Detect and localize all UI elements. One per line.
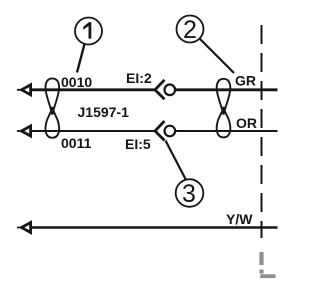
twisted pair symbol right (217, 79, 231, 138)
svg-text:GR: GR (235, 73, 256, 89)
svg-text:0011: 0011 (61, 135, 92, 151)
callout circle 3 (176, 179, 204, 208)
svg-text:EI:5: EI:5 (125, 136, 151, 152)
svg-text:OR: OR (236, 115, 257, 131)
grey corner mark (bottom-right) (260, 252, 275, 276)
callout circle 1 (75, 18, 102, 45)
leader line from circle 2 to GR label (200, 39, 234, 73)
wire 0011 (right segment) (176, 130, 278, 132)
wire 0010 (right segment to edge) (176, 88, 278, 91)
leader line from circle 1 to wire 0010 (77, 44, 85, 73)
wire Y/W (with arrow) (17, 223, 278, 233)
callout circle 2 (177, 16, 204, 45)
svg-text:2: 2 (183, 16, 197, 44)
svg-text:J1597-1: J1597-1 (78, 104, 130, 120)
twisted pair symbol left (45, 78, 59, 137)
leader line from connector EI:5 to circle 3 (166, 141, 187, 181)
connector symbol EI:5 (chevron + ring) (155, 121, 175, 141)
dashed boundary line (261, 25, 263, 238)
connector symbol EI:2 (chevron + ring) (155, 80, 175, 100)
svg-text:3: 3 (182, 180, 196, 208)
wire 0011 (left segment with arrow) (17, 126, 155, 136)
wire 0010 (left segment with arrow) (17, 85, 155, 95)
svg-text:0010: 0010 (61, 74, 92, 90)
svg-text:Y/W: Y/W (226, 211, 253, 227)
svg-text:EI:2: EI:2 (126, 70, 152, 86)
